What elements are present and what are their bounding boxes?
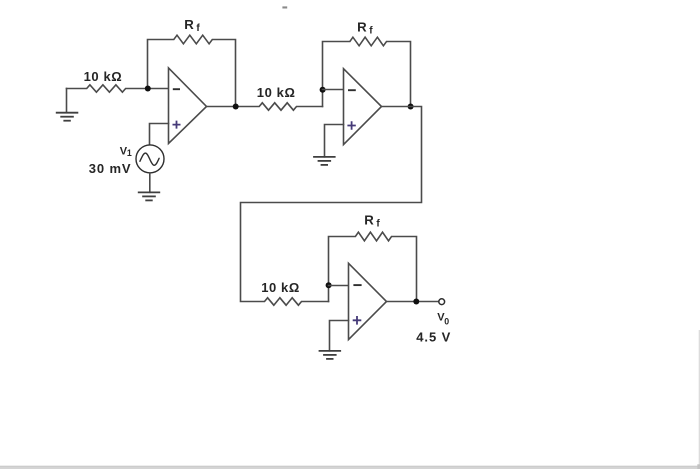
svg-text:10 kΩ: 10 kΩ [84, 69, 123, 84]
svg-text:10 kΩ: 10 kΩ [257, 85, 296, 100]
svg-text:10 kΩ: 10 kΩ [261, 280, 300, 295]
svg-text:1: 1 [127, 148, 132, 158]
svg-text:0: 0 [444, 317, 449, 327]
svg-text:4.5 V: 4.5 V [416, 329, 451, 344]
svg-text:30 mV: 30 mV [89, 161, 132, 176]
